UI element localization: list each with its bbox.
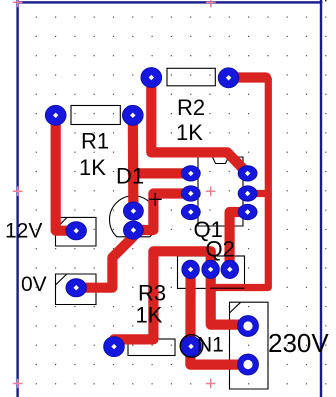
pad Q1.TR bbox=[238, 166, 257, 181]
wire R2.1 to Q1 pad TR bbox=[151, 78, 247, 174]
pad D1 cathode bbox=[123, 221, 143, 239]
svg-text:D1: D1 bbox=[116, 164, 144, 189]
transistor Q2 bottom edge overlay bbox=[210, 287, 245, 289]
connector 0V outline bbox=[56, 274, 97, 305]
page marker cross left-middle bbox=[13, 186, 23, 196]
origin cross Q1 bbox=[206, 187, 216, 197]
wire Q2.1 through R3.2 to 230V bottom pad bbox=[190, 269, 248, 364]
frame right edge bbox=[320, 0, 322, 397]
pad 230V.2 bbox=[238, 354, 259, 375]
pad 230V.1 bbox=[238, 316, 259, 337]
wire D1 cathode to Q1 pad ML bbox=[133, 194, 190, 231]
svg-text:R2: R2 bbox=[177, 95, 205, 120]
neon lamp N1 body outline bbox=[180, 335, 203, 358]
wire stub Q1 pad MR to right rail bbox=[248, 190, 269, 197]
diode D1 origin cross bbox=[149, 193, 162, 206]
diode D1 body outline bbox=[110, 196, 158, 237]
svg-text:230V: 230V bbox=[268, 328, 329, 358]
pad R2.1 bbox=[141, 68, 162, 88]
pad 230V.2 hole bbox=[243, 360, 252, 369]
pad R1.2 bbox=[123, 105, 144, 125]
transistor Q2 body outline bbox=[178, 256, 245, 288]
wire right rail down to node at Q2.2 bbox=[211, 78, 269, 288]
pad Q1.TL bbox=[181, 166, 200, 181]
pad R2.2 bbox=[218, 68, 239, 88]
svg-text:1K: 1K bbox=[79, 155, 106, 180]
pad R3.1 bbox=[104, 337, 125, 357]
pad Q1.BL bbox=[181, 204, 200, 219]
resistor R2 body bbox=[167, 68, 215, 86]
wire R1.2 to D1 anode bbox=[128, 115, 139, 211]
pad R3.2 bbox=[181, 337, 202, 357]
pad Q2.2 bbox=[202, 260, 219, 278]
wire R1.1 to 12V pad bbox=[56, 115, 76, 230]
svg-text:N1: N1 bbox=[197, 334, 224, 357]
pad Q1.ML bbox=[181, 186, 200, 201]
page marker cross top-middle bbox=[206, 0, 216, 7]
wire D1 cathode to 0V pad bbox=[76, 230, 133, 288]
wire R2.2 to right rail corner bbox=[229, 72, 266, 82]
pad 0V bbox=[66, 279, 86, 297]
svg-text:1K: 1K bbox=[136, 303, 163, 328]
svg-text:12V: 12V bbox=[5, 219, 42, 242]
wire Q2.2 to 230V top pad bbox=[211, 251, 248, 324]
pad R1.1 bbox=[45, 105, 66, 125]
connector 12V outline bbox=[56, 217, 97, 246]
wire branch R1.2 to Q1 pad TL bbox=[133, 168, 191, 178]
pad Q2.1 bbox=[182, 260, 199, 278]
grid dot partial top-right bbox=[325, 0, 326, 1]
frame top edge bbox=[16, 1, 322, 3]
pad Q2.3 bbox=[221, 260, 238, 278]
page marker cross top-left bbox=[13, 0, 23, 7]
page marker cross left-bottom bbox=[13, 379, 23, 389]
pad 12V bbox=[66, 222, 86, 240]
connector 230V outline bbox=[230, 302, 269, 389]
pad 230V.1 hole bbox=[243, 321, 252, 330]
pad hole markers (white diamonds) bbox=[53, 75, 250, 350]
svg-text:0V: 0V bbox=[21, 273, 47, 296]
pad Q1.BR bbox=[238, 204, 257, 219]
pad Q1.MR bbox=[238, 186, 257, 201]
transistor Q1 body outline with notch bbox=[198, 157, 243, 226]
resistor R1 body bbox=[71, 106, 120, 125]
wire node to R3.1 bbox=[114, 251, 211, 346]
pad D1 anode bbox=[123, 202, 143, 220]
resistor R3 body bbox=[128, 339, 175, 356]
svg-text:R1: R1 bbox=[81, 128, 109, 153]
wire Q1 pad BR to Q2.3 bbox=[230, 212, 248, 269]
origin cross N1 bbox=[206, 379, 216, 389]
svg-text:1K: 1K bbox=[176, 120, 203, 145]
svg-text:Q2: Q2 bbox=[206, 237, 235, 262]
frame left edge bbox=[16, 0, 18, 397]
